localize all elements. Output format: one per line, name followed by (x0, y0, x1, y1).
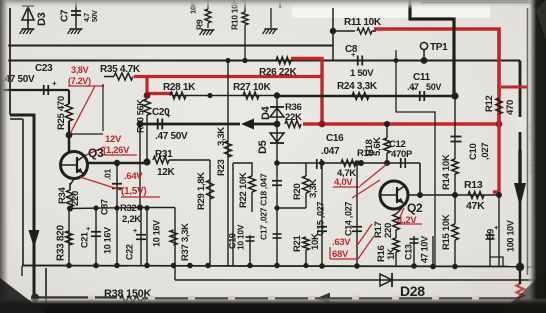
svg-text:R23: R23 (216, 159, 227, 176)
svg-text:R24 3,3K: R24 3,3K (337, 81, 378, 92)
svg-text:C7: C7 (59, 9, 70, 22)
svg-text:C87: C87 (100, 199, 110, 215)
svg-text:3,3K: 3,3K (308, 179, 319, 198)
svg-text:Q3: Q3 (88, 146, 104, 160)
svg-text:47 10V: 47 10V (420, 236, 430, 263)
svg-text:10 10V: 10 10V (235, 224, 245, 250)
svg-text:TP1: TP1 (430, 42, 448, 53)
svg-text:R21: R21 (292, 234, 303, 252)
svg-text:R33 820: R33 820 (55, 225, 66, 261)
svg-text:R37 3,3K: R37 3,3K (180, 223, 191, 261)
svg-text:1 50V: 1 50V (350, 68, 374, 79)
svg-text:3,8V: 3,8V (71, 65, 89, 75)
svg-text:10 16V: 10 16V (152, 220, 162, 247)
svg-text:C20: C20 (152, 107, 170, 118)
svg-text:Q2: Q2 (407, 201, 423, 215)
svg-text:.63V: .63V (332, 237, 351, 248)
svg-text:.47: .47 (407, 82, 419, 92)
svg-text:+: + (133, 228, 137, 235)
svg-text:.047: .047 (321, 146, 340, 157)
svg-text:R25 470: R25 470 (56, 96, 67, 130)
svg-text:R20: R20 (292, 183, 303, 200)
svg-text:2,2K: 2,2K (122, 214, 141, 225)
svg-text:+: + (52, 79, 57, 88)
svg-text:47K: 47K (466, 200, 485, 212)
svg-text:.01: .01 (102, 169, 112, 180)
svg-text:(7.2V): (7.2V) (68, 76, 91, 86)
svg-text:R27 10K: R27 10K (233, 82, 271, 93)
svg-text:R14 10K: R14 10K (441, 154, 452, 190)
svg-text:4,7: 4,7 (84, 13, 91, 22)
svg-text:R28 1K: R28 1K (163, 82, 196, 93)
svg-text:470P: 470P (391, 149, 413, 160)
svg-text:50V: 50V (92, 10, 99, 22)
svg-text:C16: C16 (326, 133, 344, 144)
svg-text:R11 10K: R11 10K (344, 17, 382, 28)
svg-text:C13: C13 (404, 244, 414, 260)
svg-text:220: 220 (383, 223, 394, 238)
svg-text:C17 ,027 C18 ,047: C17 ,027 C18 ,047 (258, 173, 268, 240)
svg-text:10K: 10K (310, 233, 321, 250)
svg-text:C22: C22 (125, 244, 135, 260)
svg-text:R9: R9 (194, 19, 204, 30)
svg-text:C10: C10 (468, 143, 479, 160)
svg-text:R32: R32 (120, 203, 137, 214)
svg-text:,027: ,027 (480, 143, 491, 160)
svg-text:D5: D5 (257, 140, 269, 154)
svg-text:5,6K: 5,6K (372, 137, 383, 156)
svg-text:12K: 12K (157, 167, 176, 178)
svg-text:(1,26V: (1,26V (103, 145, 130, 156)
svg-text:R35 4.7K: R35 4.7K (100, 64, 141, 75)
svg-text:D28: D28 (400, 283, 425, 299)
svg-text:R15 10K: R15 10K (441, 214, 452, 250)
svg-text:R29 1,8K: R29 1,8K (196, 172, 207, 210)
svg-text:10 16V: 10 16V (103, 227, 113, 254)
svg-text:50V: 50V (426, 82, 441, 92)
svg-text:(1,5V): (1,5V) (121, 186, 146, 197)
svg-text:R13: R13 (464, 179, 483, 191)
svg-text:.47 50V: .47 50V (155, 131, 188, 142)
svg-text:C23: C23 (35, 63, 53, 74)
svg-text:D3: D3 (36, 12, 48, 26)
svg-text:470: 470 (505, 100, 516, 115)
svg-text:12V: 12V (105, 134, 122, 145)
svg-text:R12: R12 (484, 95, 495, 112)
svg-text:R34: R34 (57, 186, 68, 204)
svg-text:.64V: .64V (124, 171, 143, 182)
svg-text:C21: C21 (80, 232, 90, 248)
svg-text:22K: 22K (285, 112, 302, 123)
svg-text:100 10V: 100 10V (506, 220, 516, 252)
